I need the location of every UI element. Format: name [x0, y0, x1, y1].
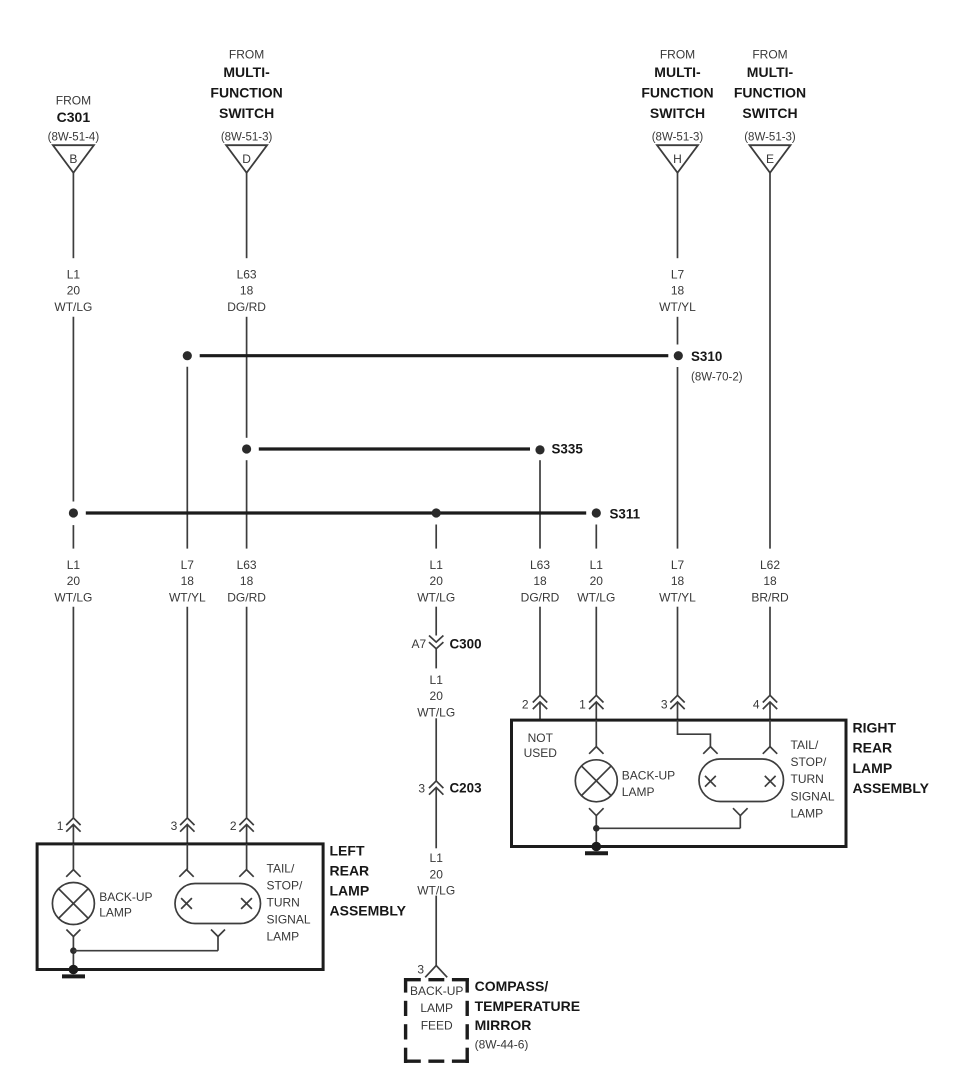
svg-text:(8W-51-3): (8W-51-3): [221, 131, 273, 143]
svg-text:L1: L1: [430, 851, 444, 865]
left lamp pin connector at x=73.4: [66, 818, 80, 832]
wire pin into right box: [595, 702, 597, 720]
svg-text:L1: L1: [430, 673, 444, 687]
svg-text:L1: L1: [430, 558, 444, 572]
wire from triangle B down (col1 upper): [72, 173, 74, 258]
wire col4 from S311 down: [435, 525, 437, 549]
connector "FROM MULTI-FUNCTION SWITCH" header H: [641, 47, 713, 143]
wire from triangle D down (col3 upper): [246, 173, 248, 258]
left back-up lamp bulb: [52, 883, 94, 925]
svg-text:1: 1: [57, 819, 64, 833]
svg-text:FUNCTION: FUNCTION: [734, 84, 806, 100]
svg-text:WT/LG: WT/LG: [417, 591, 455, 605]
left tail/stop/turn signal lamp: [175, 884, 261, 924]
wire col1 to left lamp pin 1: [72, 607, 74, 818]
connector triangle D: [226, 145, 267, 173]
svg-text:L1: L1: [590, 558, 604, 572]
splice S310 left junction dot: [183, 351, 192, 360]
svg-text:TURN: TURN: [267, 896, 300, 910]
left lamp pin connector at x=246.6: [239, 818, 253, 832]
svg-text:LAMP: LAMP: [267, 930, 300, 944]
svg-text:C301: C301: [57, 109, 91, 125]
connector "FROM MULTI-FUNCTION SWITCH" header E: [734, 47, 806, 143]
svg-text:4: 4: [753, 697, 760, 711]
svg-text:DG/RD: DG/RD: [521, 591, 560, 605]
right tail lamp socket chevron (pin4): [763, 747, 777, 754]
svg-text:STOP/: STOP/: [791, 755, 827, 769]
svg-text:18: 18: [763, 574, 777, 588]
wire pin3 inside right box with jog: [678, 720, 711, 747]
svg-text:WT/LG: WT/LG: [417, 706, 455, 720]
svg-text:18: 18: [533, 574, 547, 588]
svg-text:(8W-51-3): (8W-51-3): [652, 131, 704, 143]
connector triangle E: [750, 145, 791, 173]
left ground junction dot: [69, 965, 79, 975]
svg-text:LAMP: LAMP: [99, 906, 132, 920]
right return junction dot: [593, 825, 600, 832]
svg-text:USED: USED: [524, 746, 558, 760]
wire pin into right box: [677, 702, 679, 720]
right back-up lamp socket chevron: [589, 747, 603, 754]
svg-text:SIGNAL: SIGNAL: [267, 913, 311, 927]
connector C203 symbol: [429, 781, 443, 795]
connector "FROM MULTI-FUNCTION SWITCH" header D: [210, 47, 282, 143]
wire label L1 20 WT/LG (mid col1): [54, 558, 92, 605]
svg-text:FEED: FEED: [421, 1019, 453, 1033]
not used label: [524, 731, 558, 760]
compass mirror name: [475, 978, 581, 1052]
wire col3 through S310 crossing to S335: [246, 317, 248, 438]
splice S310 right junction dot: [674, 351, 683, 360]
svg-text:STOP/: STOP/: [267, 878, 303, 892]
wire to compass mirror: [435, 896, 437, 966]
right return wire: [596, 827, 740, 829]
svg-text:SWITCH: SWITCH: [650, 105, 705, 121]
svg-text:C300: C300: [450, 636, 482, 651]
splice S311 right junction dot: [592, 508, 601, 517]
svg-text:18: 18: [671, 574, 685, 588]
wire pin4 inside right box: [769, 720, 771, 747]
wire label block to C203: [435, 718, 437, 781]
svg-text:2: 2: [522, 697, 529, 711]
svg-text:WT/LG: WT/LG: [54, 300, 92, 314]
left back-up lamp return Y: [66, 930, 80, 970]
svg-text:A7: A7: [412, 637, 427, 651]
right back-up lamp bulb: [575, 760, 617, 802]
right ground junction dot: [592, 842, 602, 852]
svg-text:20: 20: [67, 284, 81, 298]
wire label L7 18 WT/YL (top col7): [659, 267, 696, 314]
svg-text:(8W-44-6): (8W-44-6): [475, 1038, 529, 1052]
svg-text:WT/YL: WT/YL: [169, 591, 206, 605]
right rear lamp assembly box: [512, 720, 847, 846]
right lamp pin connector at x=540.0: [533, 695, 547, 709]
svg-text:20: 20: [430, 574, 444, 588]
svg-text:L63: L63: [237, 558, 257, 572]
wire col2 from S310 down: [186, 367, 188, 549]
wire col2 to left lamp pin 3: [186, 607, 188, 818]
svg-text:TAIL/: TAIL/: [791, 738, 819, 752]
wire col1 below S311: [72, 525, 74, 549]
svg-text:BACK-UP: BACK-UP: [410, 984, 463, 998]
wire col7 below S310: [677, 367, 679, 549]
right back-up lamp label: [622, 769, 675, 800]
svg-text:MULTI-: MULTI-: [654, 64, 701, 80]
left back-up lamp socket chevron: [66, 870, 80, 877]
right ground bar: [585, 851, 608, 855]
svg-text:3: 3: [418, 781, 425, 795]
svg-text:20: 20: [67, 574, 81, 588]
svg-text:LAMP: LAMP: [420, 1001, 453, 1015]
splice S311 left junction dot: [69, 508, 78, 517]
left lamp pin connector at x=187.3: [180, 818, 194, 832]
svg-text:H: H: [673, 152, 682, 166]
svg-text:S311: S311: [610, 506, 641, 521]
svg-text:18: 18: [181, 574, 195, 588]
svg-text:18: 18: [671, 284, 685, 298]
svg-text:WT/YL: WT/YL: [659, 300, 696, 314]
left tail lamp socket chevron (pin2): [239, 870, 253, 877]
left return junction dot: [70, 947, 77, 954]
right lamp pin connector at x=770.0: [763, 695, 777, 709]
svg-text:TAIL/: TAIL/: [267, 861, 295, 875]
wire label L1 20 WT/LG (mid col6): [577, 558, 615, 605]
svg-text:ASSEMBLY: ASSEMBLY: [330, 903, 407, 919]
svg-text:MIRROR: MIRROR: [475, 1017, 532, 1033]
svg-text:18: 18: [240, 284, 254, 298]
svg-text:2: 2: [230, 819, 237, 833]
svg-text:L7: L7: [671, 558, 685, 572]
right lamp pin connector at x=596.3: [589, 695, 603, 709]
svg-text:3: 3: [171, 819, 178, 833]
right tail lamp socket chevron (pin3): [703, 747, 717, 754]
svg-text:COMPASS/: COMPASS/: [475, 978, 549, 994]
svg-text:LAMP: LAMP: [853, 760, 893, 776]
svg-text:BR/RD: BR/RD: [751, 591, 789, 605]
svg-text:TEMPERATURE: TEMPERATURE: [475, 998, 581, 1014]
back-up lamp feed label: [410, 984, 463, 1033]
wire col8 to right lamp pin 4: [769, 607, 771, 696]
svg-text:C203: C203: [450, 781, 482, 796]
left tail lamp return Y: [211, 930, 225, 951]
wire C203 down: [435, 788, 437, 849]
wire pin1 inside left box: [72, 844, 74, 870]
svg-text:20: 20: [430, 867, 444, 881]
splice S311 bus: [86, 511, 586, 514]
svg-text:MULTI-: MULTI-: [747, 64, 794, 80]
wire col7 to right lamp pin 3: [677, 607, 679, 696]
wire col5 to right lamp pin 2: [539, 607, 541, 696]
svg-text:(8W-70-2): (8W-70-2): [691, 372, 743, 384]
svg-text:FROM: FROM: [752, 47, 787, 61]
svg-text:REAR: REAR: [853, 740, 893, 756]
svg-text:RIGHT: RIGHT: [853, 720, 897, 736]
right back-up lamp return Y: [589, 808, 604, 846]
svg-text:SWITCH: SWITCH: [219, 105, 274, 121]
svg-text:L7: L7: [181, 558, 195, 572]
wire col5 from S335 down: [539, 460, 541, 548]
left back-up lamp label: [99, 890, 152, 920]
wire from triangle H down (col7 upper): [677, 173, 679, 258]
splice S335 bus: [259, 447, 530, 450]
wire C300 to label: [435, 649, 437, 669]
svg-text:REAR: REAR: [330, 863, 370, 879]
wire pin3 inside left box: [186, 844, 188, 870]
svg-text:B: B: [69, 152, 77, 166]
svg-text:FROM: FROM: [56, 93, 91, 107]
right tail lamp label: [791, 738, 835, 820]
wire col1 to splice S311: [72, 317, 74, 502]
wire pin into left box: [186, 825, 188, 844]
svg-text:WT/YL: WT/YL: [659, 591, 696, 605]
svg-text:E: E: [766, 152, 774, 166]
connector triangle B: [53, 145, 94, 173]
svg-text:FUNCTION: FUNCTION: [210, 84, 282, 100]
svg-text:LAMP: LAMP: [330, 883, 370, 899]
svg-text:BACK-UP: BACK-UP: [622, 769, 675, 783]
wire label L62 18 BR/RD (mid col8): [751, 558, 789, 605]
wire col4 to connector C300: [435, 607, 437, 636]
wire label L1 20 WT/LG (top col1): [54, 267, 92, 314]
svg-text:3: 3: [661, 697, 668, 711]
svg-text:20: 20: [590, 574, 604, 588]
svg-text:TURN: TURN: [791, 772, 824, 786]
wire label L7 18 WT/YL (mid col2): [169, 558, 206, 605]
left tail lamp socket chevron (pin3): [179, 870, 193, 877]
wire label L1 20 WT/LG (mid col4): [417, 558, 455, 605]
svg-text:D: D: [242, 152, 251, 166]
wire pin2 inside left box: [246, 844, 248, 870]
svg-text:BACK-UP: BACK-UP: [99, 890, 152, 904]
wire label L63 18 DG/RD (top col3): [227, 267, 266, 314]
wire label L63 18 DG/RD (mid col5): [521, 558, 560, 605]
left tail lamp label: [267, 861, 311, 943]
svg-text:MULTI-: MULTI-: [223, 64, 270, 80]
splice S310 bus: [200, 354, 669, 357]
left box name: [330, 843, 407, 919]
svg-text:DG/RD: DG/RD: [227, 300, 266, 314]
wire col6 to right lamp pin 1: [595, 607, 597, 696]
svg-text:WT/LG: WT/LG: [54, 591, 92, 605]
svg-text:SWITCH: SWITCH: [742, 105, 797, 121]
wire label L1 20 WT/LG (below C203): [417, 851, 455, 898]
left return wire: [73, 950, 218, 952]
wire col7 to S310: [677, 317, 679, 345]
compass mirror pin chevron: [425, 966, 447, 978]
svg-text:ASSEMBLY: ASSEMBLY: [853, 780, 930, 796]
left ground bar: [62, 974, 85, 978]
svg-text:L63: L63: [237, 267, 257, 281]
splice S335 right junction dot: [535, 445, 544, 454]
svg-text:LEFT: LEFT: [330, 843, 365, 859]
svg-text:3: 3: [417, 963, 424, 977]
wire col6 from S311 down: [595, 525, 597, 549]
svg-text:DG/RD: DG/RD: [227, 591, 266, 605]
svg-text:L1: L1: [67, 267, 81, 281]
svg-text:S310: S310: [691, 349, 722, 364]
right lamp pin connector at x=677.5: [670, 695, 684, 709]
connector C300 symbol: [429, 636, 443, 649]
compass/temperature mirror dashed box: [404, 978, 469, 1063]
svg-text:SIGNAL: SIGNAL: [791, 789, 835, 803]
svg-text:(8W-51-3): (8W-51-3): [744, 131, 796, 143]
svg-text:FROM: FROM: [660, 47, 695, 61]
wire pin into right box: [539, 702, 541, 720]
wire col3 to left lamp pin 2: [246, 607, 248, 818]
svg-text:LAMP: LAMP: [791, 806, 824, 820]
connector triangle H: [657, 145, 698, 173]
wire pin into right box: [769, 702, 771, 720]
svg-text:LAMP: LAMP: [622, 785, 655, 799]
wire label L7 18 WT/YL (mid col7): [659, 558, 696, 605]
connector C301 header: [48, 93, 100, 143]
svg-text:1: 1: [579, 697, 586, 711]
svg-text:L7: L7: [671, 267, 685, 281]
svg-text:NOT: NOT: [528, 731, 554, 745]
wire label L63 18 DG/RD (mid col3): [227, 558, 266, 605]
wire from triangle E down (col8): [769, 173, 771, 549]
wire label L1 20 WT/LG (below C300): [417, 673, 455, 720]
svg-text:L1: L1: [67, 558, 81, 572]
left rear lamp assembly box: [37, 844, 323, 970]
splice S311 middle junction dot: [432, 508, 441, 517]
right tail lamp return Y: [733, 808, 748, 828]
svg-text:20: 20: [430, 689, 444, 703]
right box name: [853, 720, 930, 796]
splice S335 left junction dot: [242, 444, 251, 453]
svg-text:FUNCTION: FUNCTION: [641, 84, 713, 100]
svg-text:L63: L63: [530, 558, 550, 572]
svg-text:S335: S335: [552, 441, 584, 456]
svg-text:L62: L62: [760, 558, 780, 572]
svg-text:18: 18: [240, 574, 254, 588]
wire pin1 inside right box: [595, 720, 597, 747]
wire pin into left box: [72, 825, 74, 844]
svg-text:(8W-51-4): (8W-51-4): [48, 131, 100, 143]
right tail/stop/turn signal lamp: [699, 759, 784, 802]
wire pin into left box: [246, 825, 248, 844]
svg-text:FROM: FROM: [229, 47, 264, 61]
wire col3 below S335: [246, 460, 248, 548]
svg-text:WT/LG: WT/LG: [577, 591, 615, 605]
